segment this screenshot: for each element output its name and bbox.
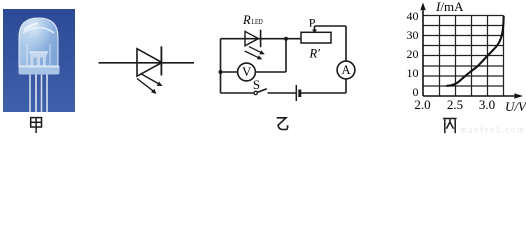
- svg-text:LED: LED: [251, 18, 262, 26]
- svg-text:10: 10: [407, 66, 419, 80]
- svg-text:A: A: [341, 63, 350, 77]
- svg-text:P: P: [309, 15, 316, 29]
- svg-text:2.0: 2.0: [414, 97, 430, 112]
- svg-text:S: S: [253, 77, 260, 92]
- svg-text:U/V: U/V: [505, 99, 526, 114]
- svg-text:3.0: 3.0: [479, 97, 495, 112]
- svg-text:40: 40: [407, 9, 419, 23]
- svg-text:2.5: 2.5: [447, 97, 463, 112]
- svg-text:manfen5.com: manfen5.com: [460, 125, 524, 135]
- svg-text:30: 30: [407, 28, 419, 42]
- svg-text:20: 20: [407, 47, 419, 61]
- svg-text:R′: R′: [309, 47, 321, 61]
- svg-text:I/mA: I/mA: [435, 0, 464, 14]
- svg-text:R: R: [242, 13, 251, 27]
- svg-text:V: V: [242, 65, 251, 79]
